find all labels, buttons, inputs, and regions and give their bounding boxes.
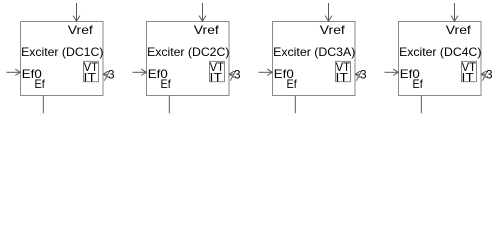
arrowhead Vref into U3 xyxy=(325,16,332,22)
wire Ef output (bottom) U2 xyxy=(168,96,170,114)
svg-text:Ef: Ef xyxy=(35,77,46,91)
arrowhead Vref into U4 xyxy=(451,16,458,22)
exciter U4 box (Exciter (DC4C)) xyxy=(399,22,482,96)
sensor box VT/IT inside U2 xyxy=(210,61,225,81)
arrowhead Ef0 into U2 xyxy=(141,69,146,75)
sensor box VT/IT inside U1 xyxy=(84,61,99,81)
arrowhead 3-phase into U4 xyxy=(481,71,486,77)
arrowhead Ef0 into U1 xyxy=(15,69,20,75)
svg-text:Exciter (DC2C): Exciter (DC2C) xyxy=(147,45,229,59)
svg-text:Ef: Ef xyxy=(413,77,424,91)
arrowhead Ef0 into U3 xyxy=(267,69,272,75)
svg-text:Vref: Vref xyxy=(68,23,94,37)
wire Ef0 input (left) U1 xyxy=(7,71,21,73)
svg-text:Vref: Vref xyxy=(194,23,220,37)
svg-text:Exciter (DC3A): Exciter (DC3A) xyxy=(273,45,355,59)
3-phase slash U3 xyxy=(356,71,361,81)
sensor box VT/IT inside U4 xyxy=(462,61,477,81)
arrowhead 3-phase into U3 xyxy=(355,71,360,77)
svg-text:3: 3 xyxy=(360,68,367,82)
svg-text:Exciter (DC4C): Exciter (DC4C) xyxy=(399,45,481,59)
svg-text:IT: IT xyxy=(84,70,97,84)
svg-text:Ef: Ef xyxy=(287,77,298,91)
svg-text:IT: IT xyxy=(336,70,349,84)
arrowhead 3-phase into U1 xyxy=(103,71,108,77)
svg-text:3: 3 xyxy=(486,68,493,82)
3-phase slash U1 xyxy=(104,71,109,81)
wire VT/IT 3-phase input (right) U2 xyxy=(229,73,234,75)
exciter U3 box (Exciter (DC3A)) xyxy=(273,22,356,96)
wire Ef0 input (left) U4 xyxy=(385,71,399,73)
wire Ef output (bottom) U1 xyxy=(42,96,44,114)
wire Ef0 input (left) U2 xyxy=(133,71,147,73)
svg-text:Vref: Vref xyxy=(320,23,346,37)
arrowhead Vref into U1 xyxy=(73,16,80,22)
svg-text:3: 3 xyxy=(234,68,241,82)
3-phase slash U4 xyxy=(482,71,487,81)
wire Vref input (top) U2 xyxy=(202,3,204,21)
arrowhead 3-phase into U2 xyxy=(229,71,234,77)
wire Ef0 input (left) U3 xyxy=(259,71,273,73)
wire Vref input (top) U3 xyxy=(328,3,330,21)
wire VT/IT 3-phase input (right) U3 xyxy=(355,73,360,75)
svg-text:IT: IT xyxy=(462,70,475,84)
svg-text:IT: IT xyxy=(210,70,223,84)
svg-text:Vref: Vref xyxy=(446,23,472,37)
wire Ef output (bottom) U3 xyxy=(294,96,296,114)
svg-text:3: 3 xyxy=(108,68,115,82)
arrowhead Ef0 into U4 xyxy=(393,69,398,75)
svg-text:Exciter (DC1C): Exciter (DC1C) xyxy=(21,45,103,59)
3-phase slash U2 xyxy=(230,71,235,81)
wire Vref input (top) U1 xyxy=(76,3,78,21)
sensor box VT/IT inside U3 xyxy=(336,61,351,81)
wire VT/IT 3-phase input (right) U4 xyxy=(481,73,486,75)
exciter U1 box (Exciter (DC1C)) xyxy=(21,22,104,96)
wire Vref input (top) U4 xyxy=(454,3,456,21)
wire VT/IT 3-phase input (right) U1 xyxy=(103,73,108,75)
arrowhead Vref into U2 xyxy=(199,16,206,22)
wire Ef output (bottom) U4 xyxy=(420,96,422,114)
exciter U2 box (Exciter (DC2C)) xyxy=(147,22,230,96)
svg-text:Ef: Ef xyxy=(161,77,172,91)
